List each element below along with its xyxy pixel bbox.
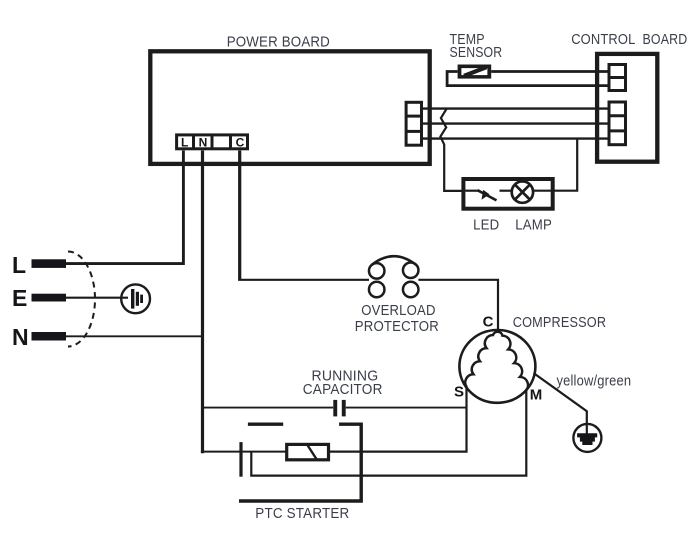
wire L (plug to power board) <box>66 151 183 264</box>
earth ground symbol E1 <box>573 424 601 452</box>
svg-text:PROTECTOR: PROTECTOR <box>355 318 439 335</box>
LED LAMP label <box>473 216 552 233</box>
svg-text:LAMP: LAMP <box>515 216 552 233</box>
power board U1 outline <box>150 51 429 164</box>
svg-text:E: E <box>12 285 27 311</box>
terminal strip letters <box>181 136 245 150</box>
lamp DS1 (circle with X) <box>500 181 553 202</box>
overload protector F1 <box>369 256 419 297</box>
wire harness 2 <box>422 122 610 124</box>
svg-text:L: L <box>181 136 188 150</box>
wire overload to compressor C <box>418 280 498 330</box>
wire S (compressor S down to PTC line) <box>330 387 467 451</box>
svg-text:CAPACITOR: CAPACITOR <box>303 381 383 398</box>
connector J2 on power board (3-pin) <box>406 102 421 145</box>
temp sensor RT1 <box>458 65 492 79</box>
svg-text:yellow/green: yellow/green <box>557 373 632 390</box>
plug terminal L <box>12 252 66 278</box>
running capacitor C1 <box>204 400 467 417</box>
svg-text:LED: LED <box>473 216 499 233</box>
svg-text:C: C <box>236 136 245 150</box>
svg-text:M: M <box>530 386 543 403</box>
wire M (compressor M to PTC lower line) <box>251 390 526 476</box>
compressor terminal labels <box>454 314 542 404</box>
wire harness 3 <box>422 137 610 139</box>
wire PTC main (N line to PTC) <box>201 451 287 453</box>
control board U2 outline <box>597 54 657 162</box>
plug terminal N <box>12 324 66 350</box>
PTC starter enclosure <box>239 424 361 501</box>
temp sensor label <box>450 31 503 61</box>
svg-text:PTC STARTER: PTC STARTER <box>255 505 349 522</box>
wire C (power board C to overload protector) <box>238 151 241 280</box>
wire sensor lead 2 (loop) <box>447 72 609 86</box>
connector J4 on control board (3-pin) <box>609 102 626 145</box>
LED lamp box <box>463 179 552 209</box>
running capacitor label <box>303 367 383 398</box>
wire LED right return <box>553 139 578 191</box>
plug terminal E <box>12 285 66 311</box>
overload protector label <box>355 302 439 335</box>
svg-text:POWER BOARD: POWER BOARD <box>227 33 330 50</box>
svg-text:CONTROL: CONTROL <box>571 31 635 48</box>
PTC relay (rectangle with diagonal) <box>287 444 329 460</box>
terminal strip L N C on power board <box>177 135 248 149</box>
wire yellow/green (compressor to earth) <box>534 373 587 435</box>
compressor winding <box>465 332 528 391</box>
wire N vertical (power board N down) <box>201 151 204 454</box>
wire C horizontal <box>238 279 369 281</box>
compressor M1 body <box>459 330 535 403</box>
svg-text:BOARD: BOARD <box>643 31 688 48</box>
plug outline (dashed arc) <box>68 252 95 347</box>
wire LED branch with harness squiggle <box>440 109 463 191</box>
wire sensor lead 1 <box>491 70 609 73</box>
svg-text:S: S <box>454 383 464 400</box>
svg-text:COMPRESSOR: COMPRESSOR <box>513 314 606 331</box>
svg-text:C: C <box>483 314 494 331</box>
wire N (plug to vertical) <box>66 335 203 337</box>
svg-text:SENSOR: SENSOR <box>450 44 503 61</box>
switch inside LED box <box>465 190 496 201</box>
svg-text:L: L <box>12 252 26 278</box>
svg-text:N: N <box>12 324 29 350</box>
connector J3 on control board (2-pin) <box>609 65 626 91</box>
svg-text:N: N <box>199 136 208 150</box>
svg-text:OVERLOAD: OVERLOAD <box>361 302 435 319</box>
wire harness 1 (J2 pin1 to J4 pin1) <box>422 107 610 109</box>
earth symbol in plug <box>66 284 150 313</box>
